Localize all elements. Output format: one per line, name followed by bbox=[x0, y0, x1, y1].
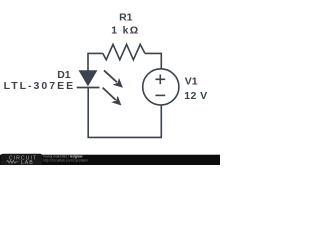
resistor R1 bbox=[103, 44, 145, 59]
svg-text:V1: V1 bbox=[185, 76, 198, 88]
voltage source V1 bbox=[143, 69, 179, 105]
wire bottom: voltage source bottom, across bottom, up to diode cathode bbox=[88, 88, 161, 137]
svg-text:http://circuitlab.com/c/proble: http://circuitlab.com/c/problem bbox=[43, 158, 88, 162]
svg-text:1 kΩ: 1 kΩ bbox=[111, 25, 139, 37]
wire top-right: resistor to voltage source top bbox=[145, 53, 161, 68]
svg-text:LTL-307EE: LTL-307EE bbox=[4, 80, 75, 92]
LED arrow 2 bbox=[103, 88, 122, 106]
svg-text:LAB: LAB bbox=[21, 160, 34, 165]
svg-text:12 V: 12 V bbox=[184, 90, 207, 102]
CircuitLab logo: resistor squiggle bbox=[7, 160, 19, 163]
LED arrow 1 bbox=[104, 70, 123, 87]
watermark bar bbox=[0, 155, 220, 165]
diode D1 (LED) triangle bbox=[79, 70, 98, 86]
wire top-left: diode anode up to resistor left lead bbox=[88, 53, 103, 70]
diode D1 cathode bar bbox=[77, 87, 100, 89]
svg-text:R1: R1 bbox=[119, 12, 133, 24]
